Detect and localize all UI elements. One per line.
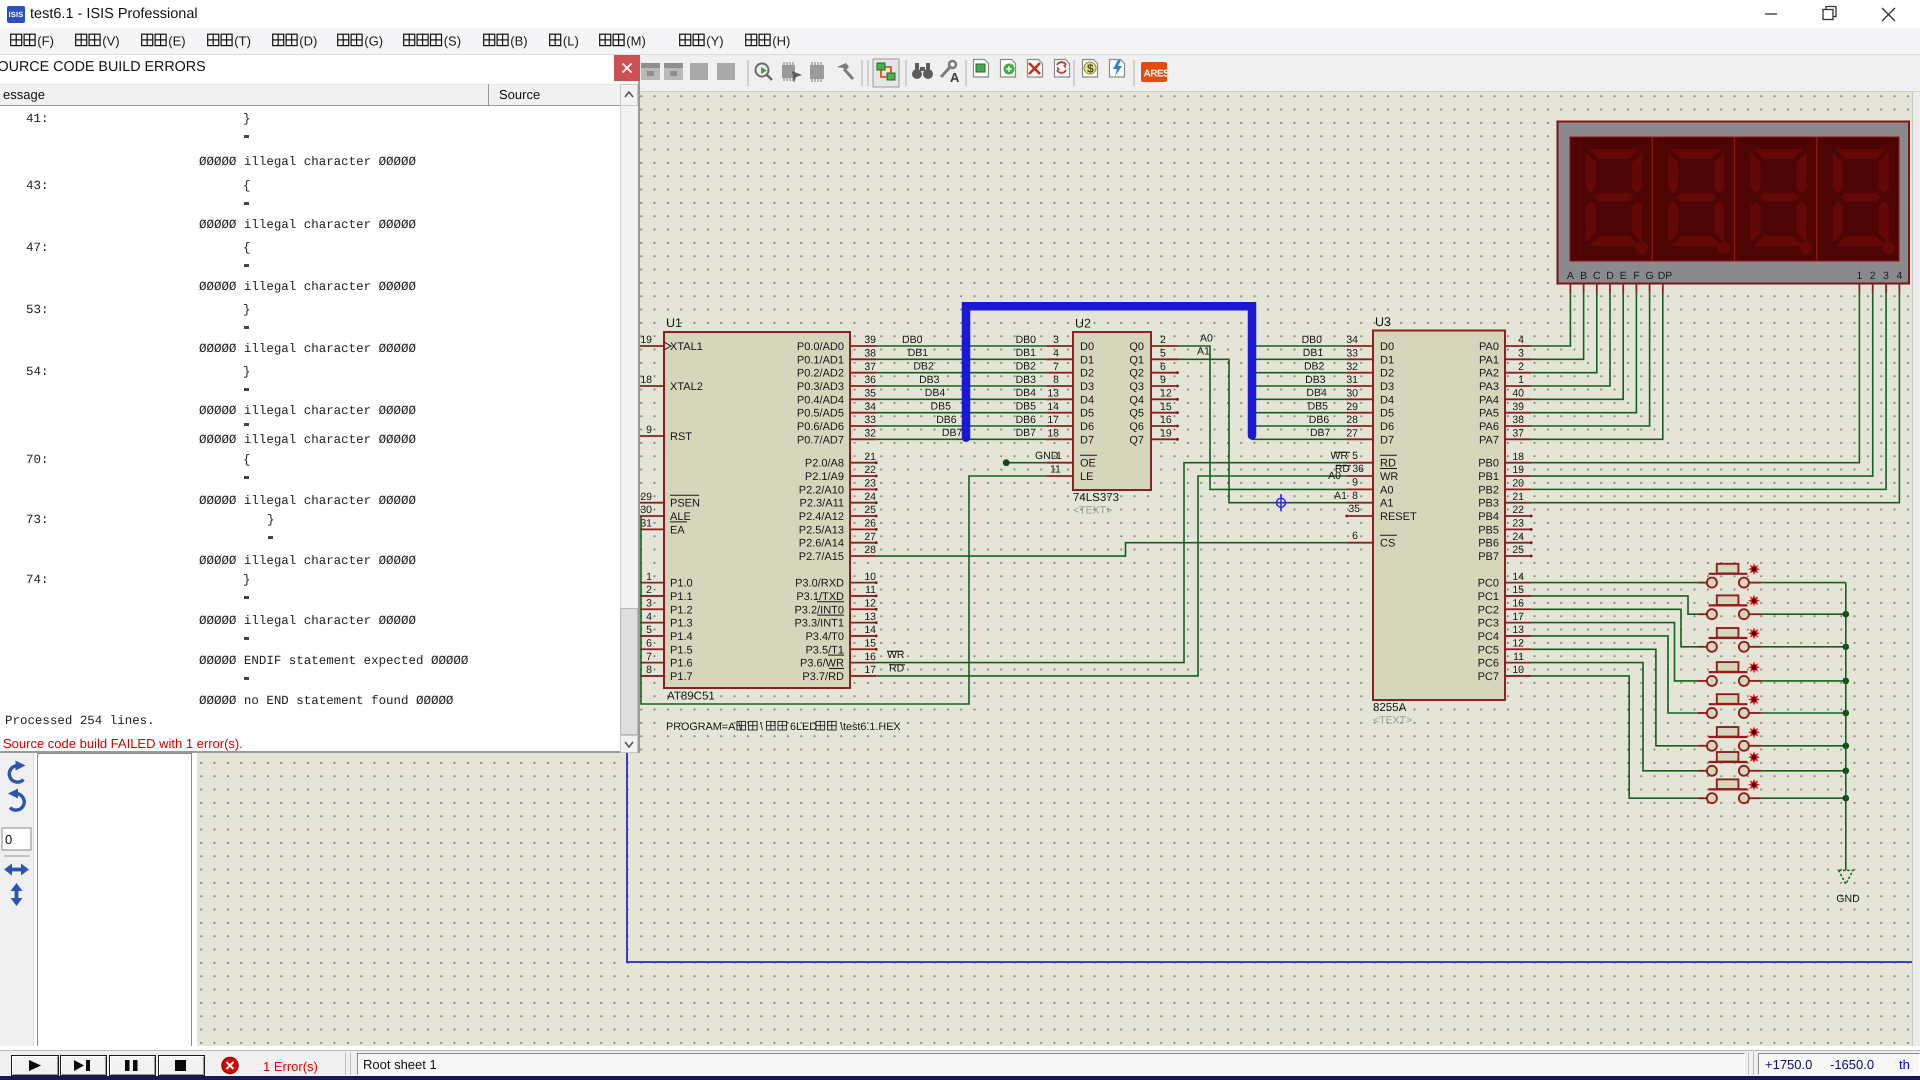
U3 pin 37 PA7	[1479, 428, 1532, 447]
U3 pin 20 PB2	[1478, 478, 1531, 497]
svg-text:P0.0/AD0: P0.0/AD0	[797, 341, 844, 353]
U1 pin 25 P2.4/A12	[799, 504, 878, 523]
U3 pin 13 PC4	[1478, 624, 1532, 643]
U3 pin 30 D4	[1346, 388, 1394, 407]
U3 pin 14 PC0	[1478, 571, 1532, 590]
wire DB6 U1.P0.6 to U2.D6	[877, 414, 1047, 426]
U1 pin 38 P0.1/AD1	[797, 348, 877, 367]
U1 pin 37 P0.2/AD2	[797, 361, 877, 380]
ground symbol GND	[1836, 870, 1860, 905]
svg-text:13: 13	[1512, 624, 1524, 636]
svg-text:38: 38	[1512, 414, 1524, 426]
svg-text:OE: OE	[1080, 458, 1096, 470]
svg-text:P1.2: P1.2	[670, 604, 693, 616]
svg-text:E: E	[1620, 270, 1627, 282]
U1 pin 24 P2.3/A11	[800, 491, 878, 510]
svg-text:PC7: PC7	[1478, 671, 1499, 683]
wire ALE net U1.ALE to U2.LE	[641, 476, 1046, 704]
svg-text:\test6.1.HEX: \test6.1.HEX	[840, 721, 901, 733]
svg-text:17: 17	[1047, 414, 1059, 426]
svg-text:P0.7/AD7: P0.7/AD7	[797, 434, 844, 446]
svg-text:3: 3	[1883, 270, 1889, 282]
svg-text:PB0: PB0	[1478, 458, 1499, 470]
svg-text:D3: D3	[1380, 381, 1394, 393]
wire U3.PC4 to button 5	[1532, 636, 1698, 713]
svg-text:D6: D6	[1080, 421, 1094, 433]
svg-text:6LED: 6LED	[790, 721, 817, 733]
display segment pin F stub	[1635, 284, 1637, 294]
svg-text:D4: D4	[1380, 394, 1394, 406]
svg-text:D0: D0	[1080, 341, 1094, 353]
U1 pin 14 P3.4/T0	[805, 624, 877, 643]
svg-text:9: 9	[646, 424, 652, 436]
svg-text:16: 16	[864, 651, 876, 663]
bus wire (blue)	[966, 306, 1252, 438]
wire DB0 bus to U3.D0	[1252, 334, 1346, 346]
svg-text:D7: D7	[1380, 434, 1394, 446]
svg-text:XTAL2: XTAL2	[670, 381, 703, 393]
svg-text:A1: A1	[1380, 498, 1393, 510]
svg-text:12: 12	[1512, 637, 1524, 649]
U2 pin 5 Q1	[1129, 348, 1178, 367]
svg-text:G: G	[1646, 270, 1654, 282]
svg-text:D5: D5	[1080, 408, 1094, 420]
svg-text:(T): (T)	[234, 34, 251, 49]
svg-text:10: 10	[864, 571, 876, 583]
svg-text:(F): (F)	[37, 34, 54, 49]
svg-text:P0.5/AD5: P0.5/AD5	[797, 408, 844, 420]
U1 pin 2 P1.1	[636, 584, 692, 603]
wire button 1 to common rail	[1761, 582, 1846, 584]
U3 pin 38 PA6	[1479, 414, 1532, 433]
svg-text:13: 13	[864, 611, 876, 623]
svg-text:PC4: PC4	[1478, 631, 1499, 643]
svg-text:P0.4/AD4: P0.4/AD4	[797, 394, 844, 406]
svg-text:27: 27	[864, 531, 876, 543]
svg-text:33: 33	[1346, 348, 1358, 360]
wire button 5 to common rail	[1761, 712, 1846, 714]
chip U2 74LS373 body	[1073, 332, 1151, 490]
svg-text:PA0: PA0	[1479, 341, 1499, 353]
svg-text:14: 14	[864, 624, 876, 636]
svg-text:19: 19	[1512, 464, 1524, 476]
U3 pin 40 PA4	[1479, 388, 1532, 407]
display digit pin 3 stub	[1885, 284, 1887, 294]
wire DB4 U1.P0.4 to U2.D4	[877, 387, 1047, 399]
U1 pin 35 P0.4/AD4	[797, 388, 877, 407]
svg-text:(H): (H)	[772, 34, 790, 49]
wire WR U1.P3.6 to U3.RD	[877, 450, 1358, 663]
svg-text:3: 3	[646, 597, 652, 609]
wire DB5 bus to U3.D5	[1252, 400, 1346, 412]
svg-text:<TEXT>: <TEXT>	[1373, 715, 1412, 727]
svg-text:PA3: PA3	[1479, 381, 1499, 393]
wire U3.PA6 to display segment G	[1532, 293, 1650, 426]
svg-text:21: 21	[864, 451, 876, 463]
svg-text:34: 34	[864, 401, 876, 413]
svg-text:DB1: DB1	[1303, 347, 1324, 359]
U1 pin 4 P1.3	[636, 611, 692, 630]
junction button 7 rail	[1843, 768, 1850, 775]
svg-text:D3: D3	[1080, 381, 1094, 393]
svg-text:PB2: PB2	[1478, 484, 1499, 496]
svg-text:30: 30	[1346, 388, 1358, 400]
svg-text:10: 10	[1512, 664, 1524, 676]
svg-text:$: $	[1087, 62, 1094, 76]
push button SW6	[1698, 726, 1761, 751]
display digit pin 4 stub	[1898, 284, 1900, 294]
svg-text:6: 6	[1352, 530, 1358, 542]
svg-text:P3.7/RD: P3.7/RD	[802, 671, 844, 683]
svg-text:4: 4	[1053, 348, 1059, 360]
svg-text:P1.7: P1.7	[670, 671, 693, 683]
wire DB2 bus to U3.D2	[1252, 360, 1346, 372]
U3 pin 29 D5	[1346, 401, 1394, 420]
svg-text:37: 37	[864, 361, 876, 373]
svg-text:31: 31	[1346, 374, 1358, 386]
svg-text:29: 29	[640, 491, 652, 503]
U1 pin 30 ALE	[637, 504, 690, 523]
wire U3.PA3 to display segment D	[1532, 293, 1610, 386]
svg-text:8: 8	[1352, 490, 1358, 502]
wire U3.PA7 to display segment DP	[1532, 293, 1663, 439]
U3 pin 34 D0	[1346, 334, 1394, 353]
display segment pin DP stub	[1662, 284, 1664, 294]
svg-text:35: 35	[1348, 503, 1360, 515]
svg-text:8: 8	[1053, 374, 1059, 386]
svg-text:DB0: DB0	[1302, 334, 1323, 346]
svg-text:3: 3	[1053, 334, 1059, 346]
svg-text:(E): (E)	[168, 34, 185, 49]
svg-text:(B): (B)	[510, 34, 527, 49]
svg-text:25: 25	[864, 504, 876, 516]
wire U3.PA5 to display segment F	[1532, 293, 1637, 412]
wire DB7 bus to U3.D7	[1252, 427, 1346, 439]
svg-text:PB7: PB7	[1478, 551, 1499, 563]
U3 pin 33 D1	[1346, 348, 1394, 367]
display digit 2 segments	[1668, 149, 1730, 254]
svg-text:C: C	[1593, 270, 1601, 282]
svg-text:1: 1	[1856, 270, 1862, 282]
wire common rail	[1845, 583, 1847, 799]
svg-text:9: 9	[1160, 374, 1166, 386]
ground terminal GND net to U2.OE	[1003, 450, 1062, 466]
push button SW7	[1698, 751, 1761, 776]
svg-text:P2.7/A15: P2.7/A15	[799, 551, 844, 563]
svg-text:D2: D2	[1380, 368, 1394, 380]
U1 pin 32 P0.7/AD7	[797, 428, 877, 447]
svg-text:11: 11	[1050, 464, 1061, 476]
svg-text:PC0: PC0	[1478, 578, 1499, 590]
svg-text:P3.4/T0: P3.4/T0	[805, 631, 844, 643]
wire CS U1.P2.7/A15 to U3.CS	[877, 530, 1358, 556]
svg-text:30: 30	[640, 504, 652, 516]
svg-text:11: 11	[865, 584, 876, 596]
svg-text:DB2: DB2	[913, 360, 934, 372]
U1 pin 34 P0.5/AD5	[797, 401, 877, 420]
junction button 3 rail	[1843, 644, 1850, 651]
svg-text:(S): (S)	[444, 34, 461, 49]
svg-text:DB5: DB5	[1016, 400, 1037, 412]
svg-text:27: 27	[1346, 428, 1358, 440]
svg-text:5: 5	[1352, 450, 1358, 462]
svg-text:D6: D6	[1380, 421, 1394, 433]
U1 pin 23 P2.2/A10	[799, 478, 878, 497]
U2 pin 6 Q2	[1129, 361, 1179, 380]
junction button 2 rail	[1843, 611, 1850, 618]
svg-text:PA1: PA1	[1479, 354, 1499, 366]
svg-text:P0.6/AD6: P0.6/AD6	[797, 421, 844, 433]
svg-text:P3.1/TXD: P3.1/TXD	[796, 591, 844, 603]
svg-text:Q7: Q7	[1129, 434, 1144, 446]
svg-text:(V): (V)	[102, 34, 119, 49]
svg-text:P2.5/A13: P2.5/A13	[799, 524, 844, 536]
svg-text:PB6: PB6	[1478, 538, 1499, 550]
U1 pin 9 RST	[636, 424, 692, 443]
U1 pin name overlines	[817, 602, 844, 669]
svg-text:5: 5	[646, 624, 652, 636]
wire A1 U2.Q1 to U3.A1	[1178, 346, 1346, 503]
svg-text:15: 15	[864, 637, 876, 649]
svg-text:P2.1/A9: P2.1/A9	[805, 471, 844, 483]
svg-text:WR: WR	[1331, 450, 1349, 462]
U3 pin 1 PA3	[1479, 374, 1532, 393]
U2 pin 7 D2	[1046, 361, 1094, 380]
svg-text:(Y): (Y)	[706, 34, 723, 49]
wire U3.PB3 to display digit 4	[1532, 293, 1900, 502]
U3 pin RD	[1346, 455, 1397, 470]
U1 pin 39 P0.0/AD0	[797, 334, 877, 353]
svg-text:PA7: PA7	[1479, 434, 1499, 446]
svg-text:A0: A0	[1328, 470, 1341, 482]
label PROGRAM hex path	[666, 721, 901, 733]
wire DB0 U1.P0.0 to U2.D0	[877, 334, 1047, 346]
svg-text:P2.2/A10: P2.2/A10	[799, 484, 844, 496]
U1 pin 21 P2.0/A8	[805, 451, 878, 470]
svg-text:1: 1	[1518, 374, 1524, 386]
U3 pin 4 PA0	[1479, 334, 1532, 353]
svg-text:P1.4: P1.4	[670, 631, 693, 643]
svg-text:15: 15	[1512, 584, 1524, 596]
svg-text:15: 15	[1160, 401, 1172, 413]
svg-text:22: 22	[1512, 504, 1524, 516]
svg-text:14: 14	[1512, 571, 1524, 583]
wire DB1 U1.P0.1 to U2.D1	[877, 347, 1047, 359]
svg-text:19: 19	[1160, 428, 1172, 440]
U3 pin 12 PC5	[1478, 637, 1532, 656]
U2 pin 15 Q5	[1129, 401, 1179, 420]
wire DB2 U1.P0.2 to U2.D2	[877, 360, 1047, 372]
svg-text:34: 34	[1346, 334, 1358, 346]
svg-text:DB3: DB3	[919, 374, 940, 386]
U1 pin 8 P1.7	[636, 664, 692, 683]
svg-text:P1.3: P1.3	[670, 618, 693, 630]
wire button 7 to common rail	[1761, 770, 1846, 772]
U3 pin A0	[1346, 484, 1393, 496]
svg-text:11: 11	[1513, 651, 1524, 663]
svg-text:A1: A1	[1197, 346, 1210, 358]
display segment pin E stub	[1622, 284, 1624, 294]
U1 pin 7 P1.6	[636, 651, 692, 670]
wire button 6 to common rail	[1761, 745, 1846, 747]
svg-text:U2: U2	[1075, 317, 1091, 331]
svg-text:DB1: DB1	[908, 347, 929, 359]
wire DB1 bus to U3.D1	[1252, 347, 1346, 359]
svg-text:LE: LE	[1080, 471, 1093, 483]
wire U3.PA2 to display segment C	[1532, 293, 1597, 372]
U3 pin 31 D3	[1346, 374, 1394, 393]
U3 pin 27 D7	[1346, 428, 1394, 447]
svg-text:PROGRAM=A:\: PROGRAM=A:\	[666, 721, 741, 733]
display segment pin A stub	[1569, 284, 1571, 294]
U1 pin 18 XTAL2	[636, 374, 702, 393]
U1 pin 36 P0.3/AD3	[797, 374, 877, 393]
svg-text:2: 2	[1870, 270, 1876, 282]
U2 pin 19 Q7	[1129, 428, 1179, 447]
svg-text:P1.5: P1.5	[670, 644, 693, 656]
svg-text:DB4: DB4	[1016, 387, 1037, 399]
display pin labels ABCDEFG DP 1234	[1567, 270, 1903, 282]
wire DB3 U1.P0.3 to U2.D3	[877, 374, 1047, 386]
wire button 3 to common rail	[1761, 646, 1846, 648]
U3 pin 16 PC2	[1478, 597, 1532, 616]
junction button 8 rail	[1843, 795, 1850, 802]
U1 pin 27 P2.6/A14	[799, 531, 878, 550]
svg-text:2: 2	[1160, 334, 1166, 346]
U1 pin 28 P2.7/A15	[799, 544, 877, 563]
svg-text:P2.6/A14: P2.6/A14	[799, 538, 844, 550]
svg-text:D1: D1	[1380, 354, 1394, 366]
svg-text:F: F	[1633, 270, 1639, 282]
svg-text:7: 7	[1053, 361, 1059, 373]
svg-text:7: 7	[646, 651, 652, 663]
svg-text:DB0: DB0	[1016, 334, 1037, 346]
push button SW4	[1698, 661, 1761, 686]
svg-text:12: 12	[864, 597, 876, 609]
svg-text:EA: EA	[670, 524, 685, 536]
svg-text:A: A	[1567, 270, 1574, 282]
selection marker on wire A1	[1273, 494, 1290, 511]
svg-text:PB3: PB3	[1478, 498, 1499, 510]
svg-text:Q0: Q0	[1129, 341, 1144, 353]
svg-text:A0: A0	[1200, 333, 1213, 345]
U3 pin 25 PB7	[1478, 544, 1532, 563]
svg-text:DB5: DB5	[931, 400, 952, 412]
svg-text:ALE: ALE	[670, 511, 691, 523]
U2 pin 18 D7	[1046, 428, 1094, 447]
U3 pin 39 PA5	[1479, 401, 1532, 420]
U2 pin 4 D1	[1046, 348, 1094, 367]
display segment pin C stub	[1596, 284, 1598, 294]
svg-text:P3.3/INT1: P3.3/INT1	[794, 618, 844, 630]
svg-text:31: 31	[640, 518, 652, 530]
junction button 6 rail	[1843, 743, 1850, 750]
chip U1 AT89C51 body	[664, 332, 850, 688]
svg-text:DB6: DB6	[1309, 414, 1330, 426]
svg-text:26: 26	[864, 518, 876, 530]
U1 pin 33 P0.6/AD6	[797, 414, 877, 433]
push button SW8	[1698, 779, 1761, 804]
svg-text:17: 17	[1512, 611, 1524, 623]
U3 pin 24 PB6	[1478, 531, 1532, 550]
svg-text:CS: CS	[1380, 538, 1395, 550]
U3 pin RESET	[1345, 511, 1417, 523]
svg-text:40: 40	[1512, 388, 1524, 400]
wire U3.PB1 to display digit 2	[1532, 293, 1873, 476]
svg-text:23: 23	[1512, 518, 1524, 530]
U1 pin 3 P1.2	[636, 597, 692, 616]
U3 pin 17 PC3	[1478, 611, 1532, 630]
svg-text:DB4: DB4	[1306, 387, 1327, 399]
svg-text:A0: A0	[1380, 484, 1393, 496]
svg-text:<TEXT>: <TEXT>	[1073, 505, 1112, 517]
svg-text:14: 14	[1047, 401, 1059, 413]
svg-text:(L): (L)	[563, 34, 579, 49]
svg-text:DB2: DB2	[1304, 360, 1325, 372]
svg-text:Q5: Q5	[1129, 408, 1144, 420]
U2 pin 1 OE	[1046, 455, 1097, 470]
svg-text:4: 4	[1518, 334, 1524, 346]
U2 pin 17 D6	[1046, 414, 1094, 433]
svg-text:38: 38	[864, 348, 876, 360]
svg-text:DB6: DB6	[936, 414, 957, 426]
svg-text:\: \	[760, 721, 763, 733]
svg-text:20: 20	[1512, 478, 1524, 490]
svg-text:PC6: PC6	[1478, 658, 1499, 670]
wire U3.PA4 to display segment E	[1532, 293, 1624, 399]
U2 pin 9 Q3	[1129, 374, 1179, 393]
junction button 5 rail	[1843, 710, 1850, 717]
U3 pin 10 PC7	[1478, 664, 1532, 683]
svg-text:4: 4	[1896, 270, 1902, 282]
svg-text:2: 2	[646, 584, 652, 596]
U3 ctrl pin numbers	[1334, 477, 1360, 516]
U3 pin A1	[1346, 498, 1393, 510]
svg-text:PA4: PA4	[1479, 394, 1499, 406]
svg-text:DB0: DB0	[902, 334, 923, 346]
U2 pin 11 LE	[1046, 464, 1093, 483]
U1 pin 17 P3.7/RD	[802, 664, 876, 683]
U3 pin WR	[1346, 469, 1398, 484]
wire button 2 to common rail	[1761, 613, 1846, 615]
svg-text:GND: GND	[1836, 893, 1860, 905]
svg-text:DB5: DB5	[1308, 400, 1329, 412]
svg-text:2: 2	[1518, 361, 1524, 373]
svg-text:5: 5	[1160, 348, 1166, 360]
U2 pin 3 D0	[1046, 334, 1094, 353]
U1 pin 11 P3.1/TXD	[796, 584, 877, 603]
svg-text:D4: D4	[1080, 394, 1094, 406]
svg-text:P3.6/WR: P3.6/WR	[800, 658, 844, 670]
U1 pin 5 P1.4	[636, 624, 692, 643]
svg-text:36: 36	[1352, 463, 1364, 475]
svg-text:PC2: PC2	[1478, 604, 1499, 616]
svg-text:U3: U3	[1375, 315, 1391, 329]
svg-text:D: D	[1606, 270, 1614, 282]
wire U3.PC7 to button 8	[1532, 676, 1698, 798]
svg-text:AT89C51: AT89C51	[667, 691, 715, 703]
U3 pin 23 PB5	[1478, 518, 1532, 537]
display segment pin G stub	[1649, 284, 1651, 294]
svg-text:6: 6	[646, 637, 652, 649]
svg-text:RD: RD	[1380, 458, 1396, 470]
svg-text:18: 18	[640, 374, 652, 386]
chip U3 8255A body	[1373, 331, 1505, 701]
display segment pin B stub	[1583, 284, 1585, 294]
U3 pin 32 D2	[1346, 361, 1394, 380]
svg-text:RESET: RESET	[1380, 511, 1417, 523]
push button SW3	[1698, 627, 1761, 652]
